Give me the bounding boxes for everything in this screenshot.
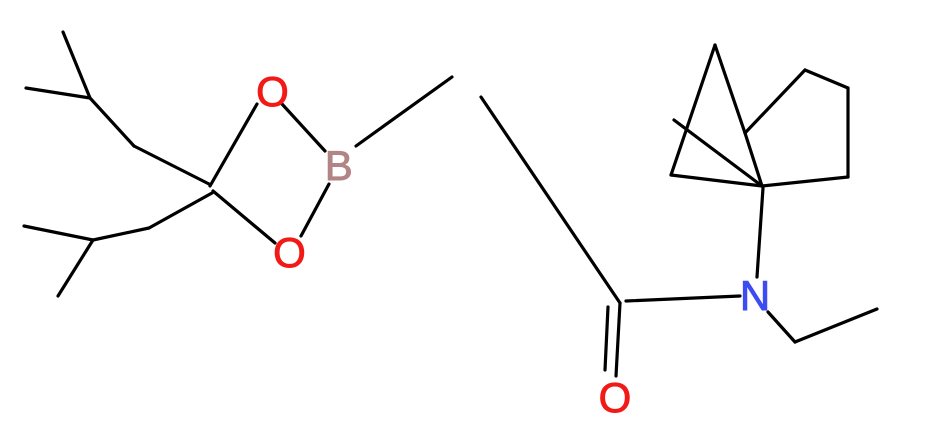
wire Cq1-K1: [134, 146, 209, 184]
wire Va-C* chain: [481, 97, 620, 303]
wire P1-L: [671, 175, 762, 186]
wire V2 methyl a: [24, 226, 93, 240]
wire K2-V2: [93, 228, 149, 240]
wire C*-N: [626, 296, 740, 301]
wire O1-B: [282, 104, 325, 151]
wire R1-P1: [745, 133, 762, 186]
svg-text:O: O: [256, 68, 289, 115]
wire V1 methyl a: [26, 88, 90, 98]
wire N-Q1 ethyl: [768, 312, 795, 342]
wire K1-V1: [90, 98, 134, 146]
wire R1-B2: [745, 70, 805, 133]
wire L-apex: [671, 45, 715, 175]
wire B-O2: [301, 184, 329, 236]
wire T2-P1: [762, 177, 848, 186]
wire Cq2-K2: [149, 193, 212, 228]
wire O1-Cq1: [210, 104, 257, 186]
wire V2 methyl b: [58, 240, 93, 296]
wire T1-T2 vertical: [846, 88, 849, 177]
wire Q1-Q2 ethyl: [795, 309, 877, 342]
wire P1-P2 crossing: [674, 120, 762, 186]
wire apex-R1: [715, 45, 745, 133]
svg-text:O: O: [273, 229, 306, 276]
wire B2-T1: [805, 70, 848, 88]
carbonyl C=O line twin: [605, 307, 608, 370]
wire V1 methyl b: [63, 32, 90, 98]
svg-text:O: O: [599, 374, 632, 421]
wire N-P1: [757, 188, 763, 277]
carbonyl C=O line main: [616, 303, 620, 376]
wire Cq2-O2: [213, 191, 275, 243]
svg-text:B: B: [325, 142, 353, 189]
svg-text:N: N: [740, 272, 770, 319]
wire B-Vb: [356, 77, 452, 146]
